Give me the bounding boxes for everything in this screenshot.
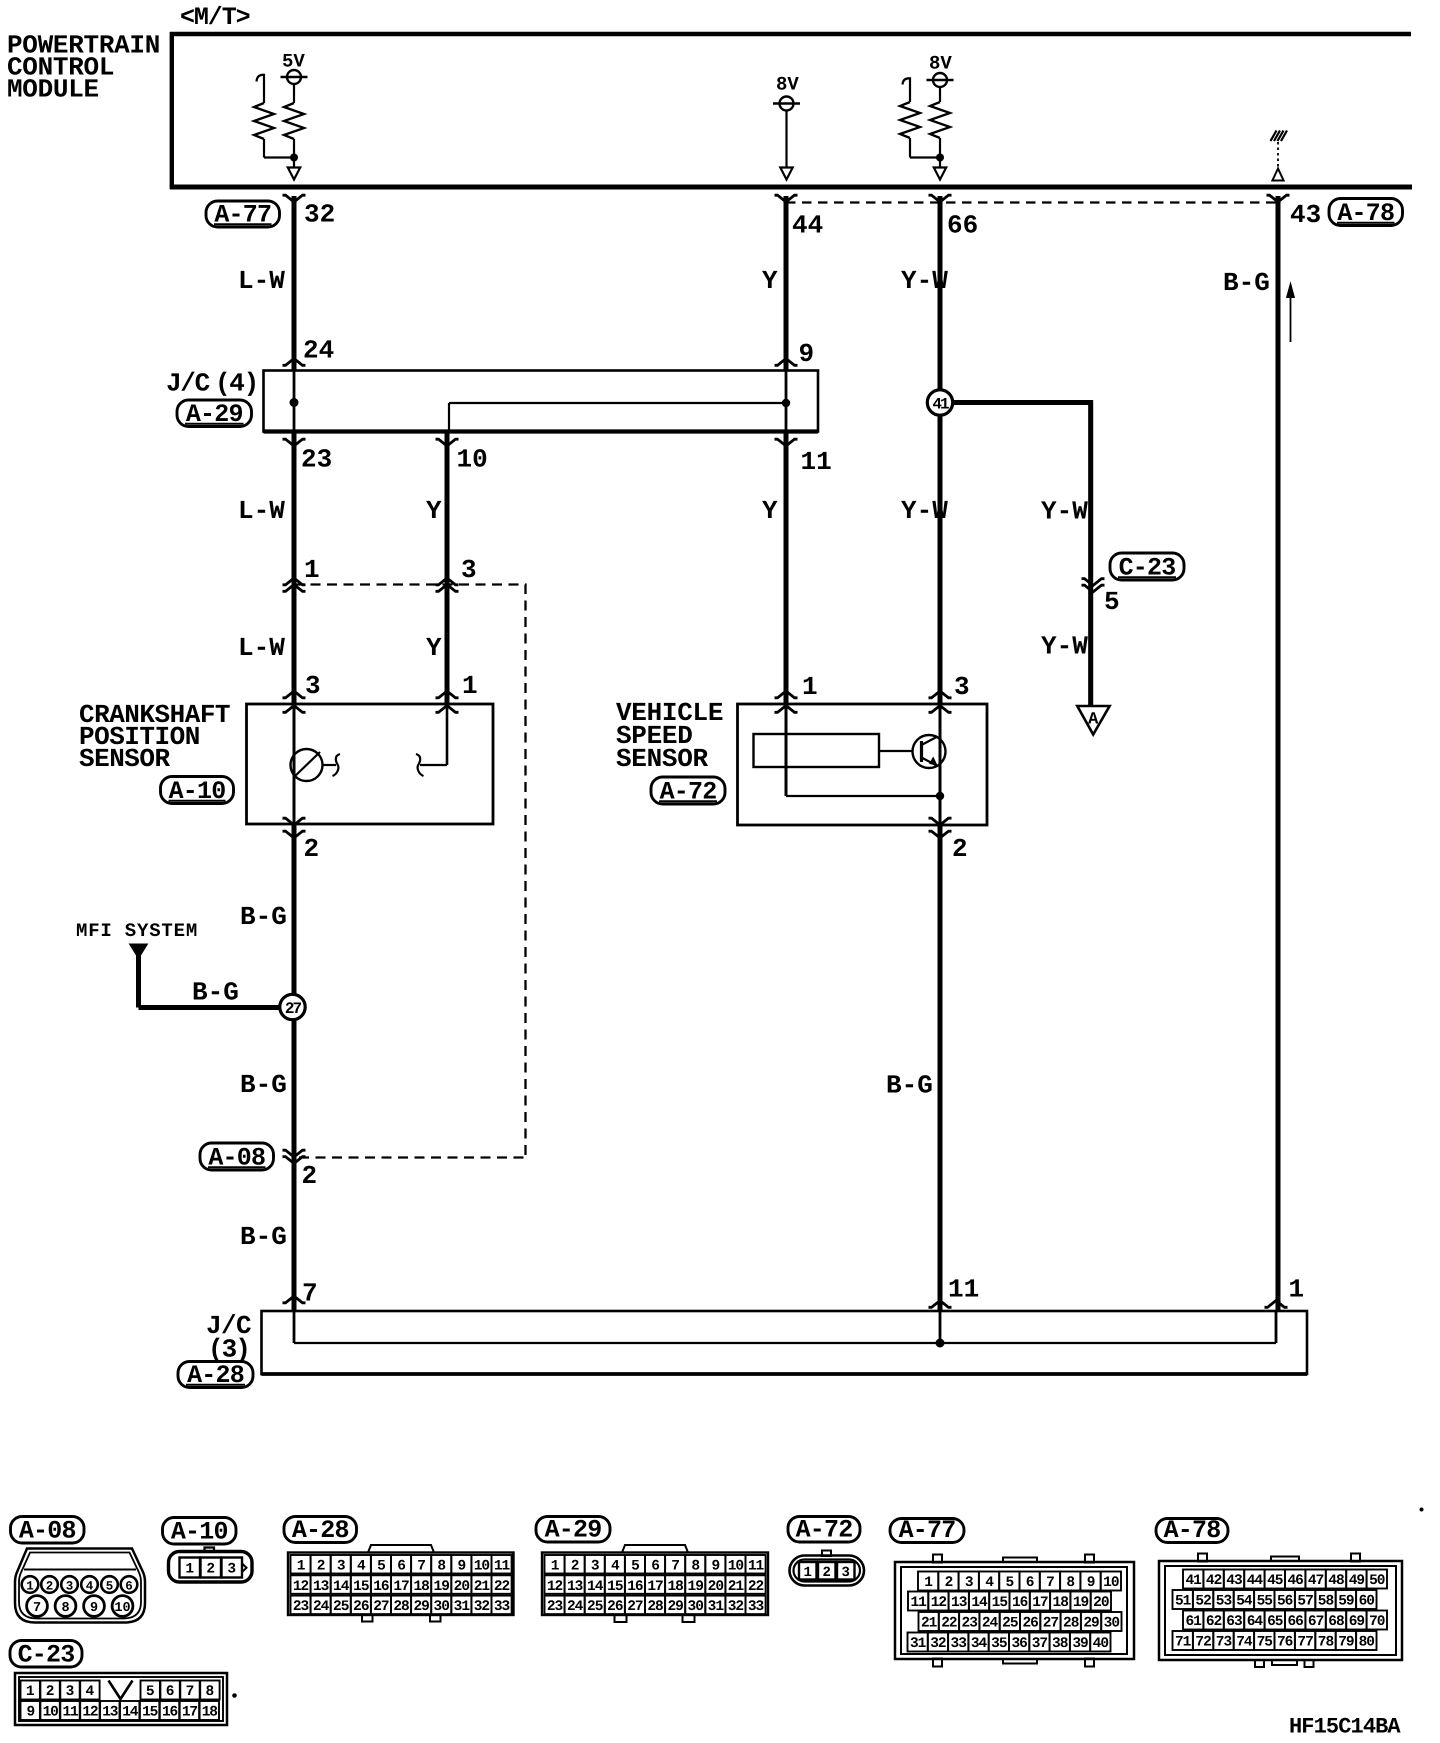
svg-text:13: 13: [567, 1579, 583, 1595]
svg-text:64: 64: [1247, 1614, 1264, 1630]
svg-text:80: 80: [1359, 1635, 1375, 1651]
svg-text:9: 9: [711, 1558, 719, 1574]
svg-text:34: 34: [971, 1636, 988, 1652]
svg-text:57: 57: [1297, 1594, 1313, 1610]
svg-text:J/C: J/C: [166, 369, 210, 399]
svg-text:11: 11: [948, 1275, 979, 1305]
svg-text:5: 5: [1104, 587, 1120, 617]
svg-text:74: 74: [1236, 1635, 1253, 1651]
svg-text:L-W: L-W: [238, 633, 285, 663]
svg-text:29: 29: [413, 1599, 429, 1615]
svg-text:B-G: B-G: [886, 1071, 933, 1101]
svg-text:32: 32: [728, 1599, 744, 1615]
svg-text:23: 23: [293, 1599, 309, 1615]
svg-text:7: 7: [33, 1601, 41, 1616]
svg-text:11: 11: [494, 1558, 511, 1574]
svg-text:40: 40: [1093, 1636, 1109, 1652]
svg-text:76: 76: [1277, 1635, 1293, 1651]
svg-text:13: 13: [951, 1595, 967, 1611]
svg-text:28: 28: [647, 1599, 663, 1615]
svg-text:8: 8: [1066, 1575, 1074, 1591]
svg-text:23: 23: [301, 445, 332, 475]
svg-text:B-G: B-G: [240, 902, 287, 932]
svg-text:B-G: B-G: [240, 1070, 287, 1100]
svg-text:L-W: L-W: [238, 496, 285, 526]
svg-text:2: 2: [304, 834, 320, 864]
svg-text:31: 31: [910, 1636, 927, 1652]
svg-text:70: 70: [1369, 1614, 1385, 1630]
svg-text:Y-W: Y-W: [1041, 632, 1088, 662]
svg-text:24: 24: [982, 1616, 999, 1632]
svg-text:18: 18: [202, 1705, 218, 1721]
svg-text:3: 3: [337, 1558, 345, 1574]
svg-text:23: 23: [547, 1599, 563, 1615]
svg-text:30: 30: [434, 1599, 450, 1615]
svg-text:22: 22: [748, 1579, 764, 1595]
svg-text:69: 69: [1349, 1614, 1365, 1630]
svg-text:4: 4: [611, 1558, 620, 1574]
svg-text:38: 38: [1052, 1636, 1068, 1652]
svg-text:14: 14: [333, 1579, 350, 1595]
svg-text:6: 6: [1026, 1575, 1034, 1591]
svg-text:49: 49: [1349, 1573, 1365, 1589]
svg-text:SENSOR: SENSOR: [79, 744, 171, 774]
svg-text:4: 4: [357, 1558, 366, 1574]
svg-text:48: 48: [1328, 1573, 1344, 1589]
svg-text:18: 18: [667, 1579, 683, 1595]
svg-text:71: 71: [1175, 1635, 1192, 1651]
svg-text:2: 2: [571, 1558, 579, 1574]
svg-text:51: 51: [1175, 1594, 1192, 1610]
svg-text:26: 26: [1022, 1616, 1038, 1632]
svg-text:73: 73: [1216, 1635, 1232, 1651]
svg-text:17: 17: [647, 1579, 663, 1595]
svg-text:Y: Y: [762, 266, 778, 296]
svg-text:43: 43: [1226, 1573, 1242, 1589]
svg-text:44: 44: [792, 211, 823, 241]
svg-text:3: 3: [841, 1565, 849, 1581]
svg-text:27: 27: [1043, 1616, 1059, 1632]
svg-text:8: 8: [61, 1601, 69, 1616]
svg-text:20: 20: [454, 1579, 470, 1595]
svg-text:5: 5: [106, 1579, 114, 1593]
svg-text:1: 1: [297, 1558, 306, 1574]
svg-text:Y: Y: [426, 633, 442, 663]
svg-text:31: 31: [454, 1599, 471, 1615]
svg-text:4: 4: [86, 1579, 94, 1593]
svg-text:L-W: L-W: [238, 266, 285, 296]
svg-text:32: 32: [474, 1599, 490, 1615]
svg-text:17: 17: [182, 1705, 198, 1721]
svg-text:1: 1: [26, 1684, 35, 1700]
svg-text:46: 46: [1287, 1573, 1303, 1589]
svg-text:2: 2: [302, 1161, 318, 1191]
svg-text:27: 27: [627, 1599, 643, 1615]
svg-text:30: 30: [1104, 1616, 1120, 1632]
svg-text:11: 11: [748, 1558, 765, 1574]
svg-text:A: A: [1088, 711, 1099, 730]
svg-text:79: 79: [1338, 1635, 1354, 1651]
svg-text:25: 25: [333, 1599, 349, 1615]
svg-text:2: 2: [945, 1575, 953, 1591]
svg-text:18: 18: [1053, 1595, 1069, 1611]
svg-text:14: 14: [587, 1579, 604, 1595]
svg-text:2: 2: [317, 1558, 325, 1574]
svg-text:55: 55: [1257, 1594, 1273, 1610]
svg-text:Y-W: Y-W: [1041, 497, 1088, 527]
svg-text:SENSOR: SENSOR: [616, 744, 709, 774]
svg-text:39: 39: [1072, 1636, 1088, 1652]
svg-text:29: 29: [667, 1599, 683, 1615]
svg-text:4: 4: [985, 1575, 994, 1591]
svg-text:72: 72: [1195, 1635, 1211, 1651]
svg-text:9: 9: [457, 1558, 465, 1574]
svg-text:3: 3: [66, 1579, 74, 1593]
svg-text:9: 9: [1087, 1575, 1095, 1591]
svg-text:9: 9: [26, 1705, 34, 1721]
svg-text:4: 4: [86, 1684, 95, 1700]
svg-text:24: 24: [303, 336, 334, 366]
svg-text:58: 58: [1318, 1594, 1334, 1610]
svg-text:3: 3: [227, 1562, 236, 1578]
svg-text:8V: 8V: [776, 74, 799, 96]
svg-text:50: 50: [1369, 1573, 1385, 1589]
svg-text:15: 15: [142, 1705, 158, 1721]
svg-text:27: 27: [373, 1599, 389, 1615]
svg-text:2: 2: [46, 1579, 54, 1593]
svg-text:67: 67: [1308, 1614, 1324, 1630]
svg-text:6: 6: [397, 1558, 405, 1574]
svg-text:2: 2: [822, 1565, 830, 1581]
svg-text:47: 47: [1308, 1573, 1324, 1589]
svg-text:66: 66: [1287, 1614, 1303, 1630]
svg-text:10: 10: [114, 1601, 130, 1616]
svg-text:B-G: B-G: [1223, 268, 1270, 298]
svg-text:5: 5: [631, 1558, 639, 1574]
svg-text:9: 9: [799, 339, 815, 369]
svg-text:19: 19: [434, 1579, 450, 1595]
svg-text:A-10: A-10: [171, 1518, 228, 1547]
svg-text:41: 41: [1185, 1573, 1202, 1589]
svg-text:31: 31: [708, 1599, 725, 1615]
svg-text:(3): (3): [208, 1335, 249, 1365]
svg-text:43: 43: [1290, 200, 1321, 230]
svg-text:28: 28: [393, 1599, 409, 1615]
svg-text:1: 1: [803, 1565, 811, 1581]
svg-text:5: 5: [377, 1558, 385, 1574]
svg-text:Y: Y: [762, 496, 778, 526]
svg-text:16: 16: [627, 1579, 643, 1595]
svg-text:A-77: A-77: [899, 1516, 956, 1545]
svg-text:24: 24: [313, 1599, 330, 1615]
svg-text:10: 10: [1103, 1575, 1119, 1591]
svg-text:3: 3: [965, 1575, 973, 1591]
svg-text:16: 16: [373, 1579, 389, 1595]
svg-text:16: 16: [162, 1705, 178, 1721]
svg-text:B-G: B-G: [240, 1222, 287, 1252]
svg-text:24: 24: [567, 1599, 584, 1615]
svg-text:25: 25: [587, 1599, 603, 1615]
svg-text:19: 19: [688, 1579, 704, 1595]
svg-text:10: 10: [728, 1558, 744, 1574]
svg-text:15: 15: [992, 1595, 1008, 1611]
svg-text:6: 6: [125, 1579, 133, 1593]
svg-text:3: 3: [305, 671, 321, 701]
svg-text:21: 21: [728, 1579, 745, 1595]
svg-text:8V: 8V: [929, 53, 952, 75]
svg-text:22: 22: [494, 1579, 510, 1595]
svg-text:29: 29: [1083, 1616, 1099, 1632]
svg-text:60: 60: [1359, 1594, 1375, 1610]
svg-text:13: 13: [313, 1579, 329, 1595]
svg-text:8: 8: [206, 1684, 215, 1700]
svg-text:52: 52: [1195, 1594, 1211, 1610]
svg-text:59: 59: [1338, 1594, 1354, 1610]
svg-text:(4): (4): [215, 369, 258, 399]
svg-text:63: 63: [1226, 1614, 1242, 1630]
svg-text:56: 56: [1277, 1594, 1293, 1610]
svg-text:HF15C14BA: HF15C14BA: [1289, 1715, 1401, 1739]
svg-text:1: 1: [551, 1558, 560, 1574]
svg-text:A-78: A-78: [1164, 1516, 1221, 1545]
svg-text:14: 14: [971, 1595, 988, 1611]
svg-text:17: 17: [393, 1579, 409, 1595]
svg-text:11: 11: [801, 447, 832, 477]
svg-text:15: 15: [353, 1579, 369, 1595]
svg-text:1: 1: [185, 1562, 194, 1578]
svg-text:<M/T>: <M/T>: [180, 3, 250, 32]
svg-text:10: 10: [457, 445, 488, 475]
svg-text:8: 8: [691, 1558, 699, 1574]
svg-text:C-23: C-23: [18, 1641, 75, 1670]
svg-text:6: 6: [651, 1558, 659, 1574]
svg-text:33: 33: [951, 1636, 967, 1652]
svg-text:30: 30: [688, 1599, 704, 1615]
svg-text:6: 6: [166, 1684, 175, 1700]
svg-text:2: 2: [206, 1562, 215, 1578]
svg-text:36: 36: [1011, 1636, 1027, 1652]
svg-text:27: 27: [285, 1000, 302, 1018]
svg-text:1: 1: [26, 1579, 34, 1593]
svg-text:33: 33: [494, 1599, 510, 1615]
svg-text:11: 11: [62, 1705, 79, 1721]
svg-text:12: 12: [547, 1579, 563, 1595]
svg-text:7: 7: [1046, 1575, 1054, 1591]
svg-text:1: 1: [802, 672, 818, 702]
svg-text:1: 1: [304, 555, 320, 585]
svg-text:20: 20: [1093, 1595, 1109, 1611]
svg-text:12: 12: [82, 1705, 98, 1721]
svg-text:11: 11: [910, 1595, 927, 1611]
svg-text:3: 3: [954, 672, 970, 702]
svg-text:65: 65: [1267, 1614, 1283, 1630]
svg-text:37: 37: [1032, 1636, 1048, 1652]
svg-text:A-29: A-29: [545, 1516, 602, 1545]
svg-text:1: 1: [1289, 1275, 1305, 1305]
svg-text:9: 9: [90, 1601, 98, 1616]
svg-text:33: 33: [748, 1599, 764, 1615]
svg-text:12: 12: [931, 1595, 947, 1611]
svg-text:1: 1: [924, 1575, 933, 1591]
svg-text:19: 19: [1073, 1595, 1089, 1611]
svg-text:1: 1: [462, 671, 478, 701]
svg-text:75: 75: [1257, 1635, 1273, 1651]
svg-text:41: 41: [932, 395, 949, 413]
svg-text:25: 25: [1002, 1616, 1018, 1632]
svg-text:32: 32: [930, 1636, 946, 1652]
svg-text:MODULE: MODULE: [7, 75, 99, 105]
svg-text:44: 44: [1247, 1573, 1264, 1589]
svg-text:26: 26: [607, 1599, 623, 1615]
svg-text:35: 35: [991, 1636, 1007, 1652]
svg-text:2: 2: [46, 1684, 55, 1700]
svg-text:7: 7: [186, 1684, 195, 1700]
svg-text:15: 15: [607, 1579, 623, 1595]
svg-text:2: 2: [952, 834, 968, 864]
svg-text:23: 23: [962, 1616, 978, 1632]
svg-text:26: 26: [353, 1599, 369, 1615]
svg-text:A-28: A-28: [292, 1516, 349, 1545]
svg-text:5: 5: [1005, 1575, 1013, 1591]
svg-text:45: 45: [1267, 1573, 1283, 1589]
svg-text:53: 53: [1216, 1594, 1232, 1610]
svg-text:7: 7: [417, 1558, 425, 1574]
svg-text:Y-W: Y-W: [901, 496, 948, 526]
svg-text:3: 3: [66, 1684, 75, 1700]
svg-text:42: 42: [1206, 1573, 1222, 1589]
svg-text:13: 13: [102, 1705, 118, 1721]
svg-text:5: 5: [146, 1684, 155, 1700]
svg-text:18: 18: [413, 1579, 429, 1595]
svg-text:32: 32: [304, 200, 335, 230]
svg-text:66: 66: [947, 211, 978, 241]
svg-text:21: 21: [474, 1579, 491, 1595]
svg-text:A-72: A-72: [796, 1516, 853, 1545]
svg-text:61: 61: [1185, 1614, 1202, 1630]
svg-text:3: 3: [591, 1558, 599, 1574]
svg-text:7: 7: [302, 1279, 318, 1309]
svg-text:17: 17: [1032, 1595, 1048, 1611]
svg-text:B-G: B-G: [192, 978, 239, 1008]
svg-text:78: 78: [1318, 1635, 1334, 1651]
svg-text:28: 28: [1063, 1616, 1079, 1632]
svg-text:21: 21: [921, 1616, 938, 1632]
svg-text:Y-W: Y-W: [901, 266, 948, 296]
svg-text:A-08: A-08: [19, 1517, 76, 1546]
svg-text:62: 62: [1206, 1614, 1222, 1630]
svg-text:20: 20: [708, 1579, 724, 1595]
svg-text:14: 14: [122, 1705, 139, 1721]
svg-text:68: 68: [1328, 1614, 1344, 1630]
svg-text:Y: Y: [426, 496, 442, 526]
svg-text:16: 16: [1012, 1595, 1028, 1611]
svg-text:10: 10: [474, 1558, 490, 1574]
svg-text:3: 3: [461, 555, 477, 585]
svg-text:MFI SYSTEM: MFI SYSTEM: [76, 920, 198, 942]
svg-text:12: 12: [293, 1579, 309, 1595]
svg-text:10: 10: [43, 1705, 59, 1721]
svg-text:77: 77: [1297, 1635, 1313, 1651]
svg-text:8: 8: [437, 1558, 445, 1574]
svg-text:54: 54: [1236, 1594, 1253, 1610]
svg-text:22: 22: [941, 1616, 957, 1632]
svg-text:7: 7: [671, 1558, 679, 1574]
